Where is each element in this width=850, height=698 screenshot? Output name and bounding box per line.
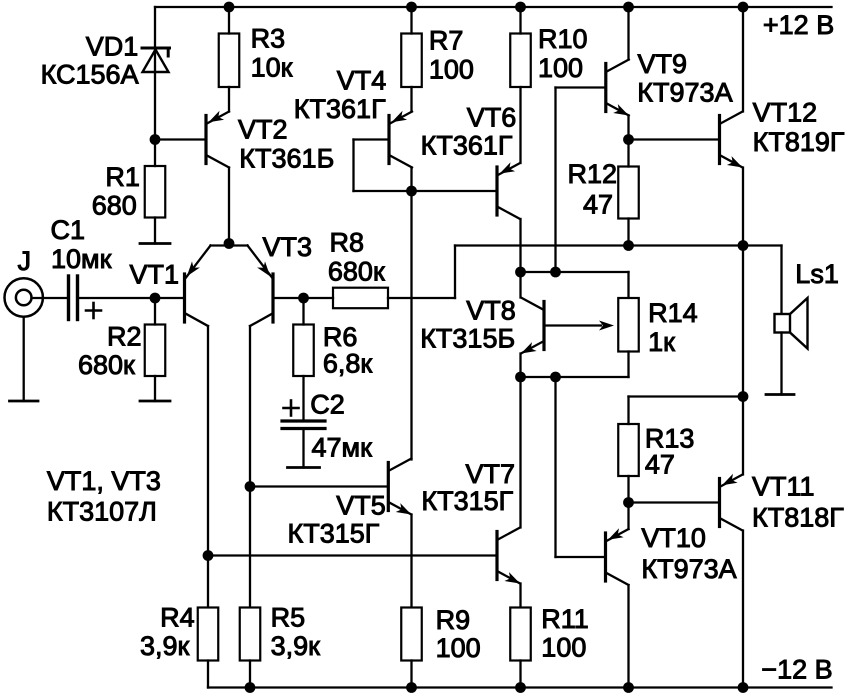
svg-text:КТ315Г: КТ315Г xyxy=(421,486,513,516)
label R10 xyxy=(538,24,588,54)
svg-text:КТ315Б: КТ315Б xyxy=(420,324,515,354)
label VT7 xyxy=(466,459,516,489)
svg-text:VT5: VT5 xyxy=(336,491,386,521)
label R6 value 6.8k xyxy=(323,349,373,379)
wire R8 right lead xyxy=(388,297,455,299)
label C2 xyxy=(310,390,345,420)
label R5 value 3.9k xyxy=(271,631,321,661)
wire VT12 emitter down xyxy=(742,168,744,246)
svg-text:R1: R1 xyxy=(105,162,140,192)
svg-text:R7: R7 xyxy=(429,26,464,56)
ground of J xyxy=(10,400,39,403)
wire VT10 base down xyxy=(554,377,556,557)
wire VT4 node to VT6 base xyxy=(412,190,498,192)
wire R9 bottom lead xyxy=(410,661,412,688)
label VT5 type KT315G xyxy=(288,519,380,549)
node bottom rail junction at VT11 collector xyxy=(738,682,749,693)
label VT10 type KT973A xyxy=(641,554,736,584)
svg-text:VD1: VD1 xyxy=(86,32,139,62)
svg-text:VT4: VT4 xyxy=(337,66,387,96)
label R8 xyxy=(330,228,365,258)
wire J to C1 xyxy=(32,297,69,299)
svg-text:VT1, VT3: VT1, VT3 xyxy=(47,466,161,496)
transistor VT5 xyxy=(388,459,411,515)
svg-text:680к: 680к xyxy=(328,257,385,287)
node VT9-emitter/R12/VT12-base junction xyxy=(623,134,634,145)
label R9 xyxy=(436,605,471,635)
label R9 value 100 xyxy=(436,633,481,663)
label C2 value 47mk xyxy=(312,433,373,463)
transistor VT2 xyxy=(206,111,229,168)
wire feedback to output xyxy=(455,244,743,246)
label VT5 xyxy=(336,491,386,521)
node top rail junction at R10 xyxy=(515,2,526,13)
label VD1 xyxy=(86,32,139,62)
wire R14 bottom corner xyxy=(627,352,629,378)
label VT6 type KT361G xyxy=(421,131,513,161)
label -12 V xyxy=(761,655,832,685)
resistor R11 xyxy=(510,608,531,661)
wire VT2 collector down xyxy=(228,168,230,244)
node bottom rail junction at R5 xyxy=(245,682,256,693)
transistor VT10 xyxy=(606,528,629,585)
wire VT5 emitter down to R9 xyxy=(410,515,412,608)
wire VT12 collector up xyxy=(742,7,744,112)
node VT12-emitter/output junction xyxy=(738,240,749,251)
svg-text:1к: 1к xyxy=(648,327,675,357)
node input junction C1/R2/VT1 xyxy=(150,293,161,304)
label R7 xyxy=(429,26,464,56)
svg-text:VT2: VT2 xyxy=(238,115,288,145)
speaker Ls1 box xyxy=(775,314,791,333)
speaker Ls1 horn xyxy=(790,298,808,349)
transistor VT6 xyxy=(497,162,520,219)
svg-text:КТ3107Л: КТ3107Л xyxy=(47,497,157,527)
wire node to VT11 base xyxy=(629,501,720,503)
resistor R2 xyxy=(145,325,166,377)
wire VT4 node down to VT5 collector xyxy=(410,191,412,460)
wire R3 to VT2 emitter xyxy=(228,87,230,112)
wire VT9 collector up xyxy=(627,7,629,60)
svg-text:C2: C2 xyxy=(310,390,345,420)
wire R6 to C2 xyxy=(302,376,304,421)
transistor VT1 collector slant xyxy=(186,314,209,327)
resistor R14 potentiometer xyxy=(618,298,639,352)
svg-text:R5: R5 xyxy=(271,603,306,633)
label R6 xyxy=(323,322,358,352)
transistor VT9 xyxy=(606,60,629,116)
resistor R8 xyxy=(333,288,388,309)
svg-text:680: 680 xyxy=(92,191,137,221)
svg-text:КТ361Б: КТ361Б xyxy=(239,144,334,174)
svg-text:100: 100 xyxy=(538,53,583,83)
node VT9-base/bias-top junction xyxy=(550,267,561,278)
wire VT10 emitter up xyxy=(627,503,629,530)
svg-text:КТ973А: КТ973А xyxy=(637,78,732,108)
svg-text:3,9к: 3,9к xyxy=(140,631,190,661)
wire VT3 collector down to R5 xyxy=(249,326,251,608)
node top rail junction at R3 xyxy=(224,2,235,13)
svg-text:VT3: VT3 xyxy=(263,232,313,262)
label R7 value 100 xyxy=(429,55,474,85)
wire emitter stub left xyxy=(211,244,230,246)
svg-text:J: J xyxy=(18,246,32,276)
label R2 xyxy=(107,322,142,352)
node VT3-collector / VT5 base junction xyxy=(245,481,256,492)
diode VD1 zener cathode bar xyxy=(142,48,170,56)
wire VT8 collector up xyxy=(519,272,521,298)
connector J inner circle xyxy=(16,290,32,306)
node VT4 collector/base/VT6 base junction xyxy=(406,186,417,197)
wire VT4 base loop left xyxy=(354,138,390,140)
node VD1/R1/VT2-base junction xyxy=(150,134,161,145)
transistor VT3 base bar xyxy=(271,274,274,322)
label R13 xyxy=(645,424,695,454)
label VD1 type KS156A xyxy=(41,60,139,90)
label R3 value 10k xyxy=(251,53,293,83)
label VT8 type KT315B xyxy=(420,324,515,354)
wire VT2 base lead xyxy=(155,138,206,140)
wire speaker bottom xyxy=(780,333,782,395)
wire R1 top lead xyxy=(154,140,156,167)
label VT8 xyxy=(466,296,516,326)
wire R7 top lead xyxy=(410,7,412,34)
transistor VT11 xyxy=(720,474,743,531)
node top rail junction at VT12 collector xyxy=(738,2,749,13)
label VT2 xyxy=(238,115,288,145)
label Ls1 xyxy=(795,259,839,289)
label VT1 xyxy=(130,260,180,290)
svg-text:10мк: 10мк xyxy=(51,244,112,274)
wire C2 bottom lead xyxy=(302,429,304,468)
wire VT8 base to R14 wiper xyxy=(546,324,601,326)
node top rail junction at R7 xyxy=(406,2,417,13)
wire node to VT12 base xyxy=(629,138,720,140)
resistor R4 xyxy=(198,608,219,661)
svg-text:C1: C1 xyxy=(51,215,86,245)
svg-text:Ls1: Ls1 xyxy=(795,259,839,289)
wire J shield down xyxy=(23,317,25,401)
wire VT4 collector down xyxy=(410,168,412,192)
svg-text:6,8к: 6,8к xyxy=(323,349,373,379)
label J xyxy=(18,246,32,276)
label VT6 xyxy=(467,103,517,133)
wire VT8 emitter down xyxy=(519,354,521,378)
wire R10 top lead xyxy=(519,7,521,34)
label VT9 type KT973A xyxy=(637,78,732,108)
svg-text:R10: R10 xyxy=(538,24,588,54)
resistor R13 xyxy=(618,424,639,476)
svg-text:10к: 10к xyxy=(251,53,293,83)
wire +12V top rail xyxy=(155,6,832,8)
wire R12 top lead xyxy=(627,140,629,167)
label VT7 type KT315G xyxy=(421,486,513,516)
wire output to speaker corner xyxy=(743,244,782,246)
label VT3 xyxy=(263,232,313,262)
wire R8 up corner xyxy=(454,246,456,299)
resistor R5 xyxy=(240,608,261,661)
resistor R12 xyxy=(618,167,639,219)
node VT1-collector / long wire junction xyxy=(203,550,214,561)
label R5 xyxy=(271,603,306,633)
transistor VT1 base bar xyxy=(183,274,186,322)
svg-text:R6: R6 xyxy=(323,322,358,352)
wire VT1 emitter slant xyxy=(186,246,211,279)
svg-text:100: 100 xyxy=(429,55,474,85)
node R13-wire/output junction xyxy=(738,391,749,402)
transistor VT12 xyxy=(720,112,743,168)
wire VT5 base left xyxy=(250,485,388,487)
polarity + of C2 xyxy=(284,401,299,416)
wire VT6 collector down xyxy=(519,219,521,272)
wire R4 bottom lead xyxy=(207,661,209,688)
wire VT7 collector up xyxy=(519,377,521,528)
wire VT11 collector down xyxy=(742,531,744,688)
label R4 value 3.9k xyxy=(140,631,190,661)
diode VD1 zener triangle xyxy=(143,50,169,73)
label R11 xyxy=(541,604,589,634)
wire VT7 emitter down to R11 xyxy=(519,584,521,608)
svg-text:VT11: VT11 xyxy=(752,472,815,502)
label VT1 VT3 note xyxy=(47,466,161,496)
wire R7 to VT4 emitter xyxy=(410,87,412,112)
resistor R10 xyxy=(510,34,531,88)
label R1 value 680 xyxy=(92,191,137,221)
svg-text:3,9к: 3,9к xyxy=(271,631,321,661)
wire bias bottom xyxy=(521,376,629,378)
node bottom rail junction at VT10 collector xyxy=(623,682,634,693)
label KT3107L note xyxy=(47,497,157,527)
polarity + of C1 xyxy=(86,303,101,318)
svg-text:VT6: VT6 xyxy=(467,103,517,133)
svg-text:КТ819Г: КТ819Г xyxy=(753,127,845,157)
transistor VT8 xyxy=(521,298,544,354)
svg-text:КТ315Г: КТ315Г xyxy=(288,519,380,549)
label VT12 xyxy=(753,98,818,128)
label C1 xyxy=(51,215,86,245)
transistor VT1 emitter arrow xyxy=(187,261,200,276)
wire VT3 emitter slant xyxy=(248,246,273,279)
svg-text:VT8: VT8 xyxy=(466,296,516,326)
wire R12 bottom lead xyxy=(627,219,629,246)
wire R6 top lead xyxy=(302,298,304,325)
wire VT4 base loop bottom xyxy=(354,190,412,192)
svg-text:R2: R2 xyxy=(107,322,142,352)
wire R2 bottom lead xyxy=(154,376,156,401)
label R11 value 100 xyxy=(541,633,586,663)
wire VD1 anode to node xyxy=(154,49,156,140)
wire bias top xyxy=(521,271,629,273)
node bottom rail junction at R9 xyxy=(406,682,417,693)
node VT2 collector / VT1 VT3 emitters xyxy=(224,238,235,249)
resistor R6 xyxy=(293,325,314,377)
resistor R3 xyxy=(219,34,240,88)
svg-text:VT7: VT7 xyxy=(466,459,516,489)
label R14 xyxy=(648,298,698,328)
connector J outer circle xyxy=(5,278,43,316)
label VT2 type KT361B xyxy=(239,144,334,174)
label R10 value 100 xyxy=(538,53,583,83)
label R13 value 47 xyxy=(645,450,675,480)
svg-text:R9: R9 xyxy=(436,605,471,635)
svg-text:100: 100 xyxy=(436,633,481,663)
svg-text:−12 В: −12 В xyxy=(761,655,832,685)
wire VT4 base loop down xyxy=(352,140,354,192)
wire VT10 base right xyxy=(556,556,606,558)
label VT4 type KT361G xyxy=(294,94,386,124)
svg-text:47: 47 xyxy=(583,190,613,220)
svg-text:R14: R14 xyxy=(648,298,698,328)
ground of speaker xyxy=(766,393,794,396)
wire top rail corner down to VD1 xyxy=(154,7,156,48)
svg-text:VT1: VT1 xyxy=(130,260,180,290)
label VT10 xyxy=(641,523,706,553)
node bottom rail junction at R11 xyxy=(515,682,526,693)
svg-text:КТ973А: КТ973А xyxy=(641,554,736,584)
wire R10 to VT6 emitter xyxy=(519,87,521,163)
node VT8-emitter/bias-bottom junction xyxy=(515,372,526,383)
transistor VT3 collector slant xyxy=(250,314,273,327)
node VT6-collector/VT8-collector/R14-top junction xyxy=(515,267,526,278)
wire speaker down xyxy=(780,246,782,315)
label VT4 xyxy=(337,66,387,96)
wire VT1-collector node to VT7 base xyxy=(208,554,497,556)
transistor VT4 xyxy=(389,111,412,168)
wire VT9 base down xyxy=(554,88,556,273)
ground of R1 xyxy=(140,242,170,245)
label VT11 xyxy=(752,472,815,502)
wire VT9 base left xyxy=(556,86,606,88)
wire R3 top lead xyxy=(228,7,230,34)
resistor R1 xyxy=(145,166,166,218)
svg-text:R8: R8 xyxy=(330,228,365,258)
svg-text:КТ818Г: КТ818Г xyxy=(752,503,844,533)
wire VT11 emitter up xyxy=(742,246,744,475)
ground of C2 xyxy=(288,466,320,469)
svg-text:VT9: VT9 xyxy=(638,49,688,79)
label C1 value 10mk xyxy=(51,244,112,274)
resistor R7 xyxy=(401,34,422,88)
wire VT10 collector down xyxy=(627,585,629,688)
label R8 value 680k xyxy=(328,257,385,287)
svg-text:R3: R3 xyxy=(251,24,286,54)
svg-text:КС156А: КС156А xyxy=(41,60,139,90)
wire emitter stub right xyxy=(229,244,248,246)
wire R13 top lead xyxy=(627,397,629,425)
wire R8 left lead xyxy=(304,297,334,299)
transistor VT3 emitter arrow xyxy=(257,261,270,276)
wire bias top corner down xyxy=(627,272,629,298)
capacitor C1 xyxy=(69,276,78,320)
svg-text:R11: R11 xyxy=(541,604,589,634)
wire VT3 base lead xyxy=(273,297,304,299)
label R2 value 680k xyxy=(78,350,135,380)
label +12 V xyxy=(763,10,834,40)
wire R13 bottom lead xyxy=(627,476,629,503)
svg-text:VT12: VT12 xyxy=(753,98,818,128)
label R12 value 47 xyxy=(583,190,613,220)
wire VT1 collector down to R4 xyxy=(207,326,209,608)
node bias-bottom/VT10-base junction xyxy=(550,372,561,383)
svg-text:47: 47 xyxy=(645,450,675,480)
wire R13 top to output xyxy=(629,395,744,397)
svg-text:VT10: VT10 xyxy=(641,523,706,553)
wire C1 to VT1 base xyxy=(78,297,185,299)
ground of R2 xyxy=(140,400,170,403)
node R12-bottom/output-wire junction xyxy=(623,240,634,251)
svg-text:КТ361Г: КТ361Г xyxy=(421,131,513,161)
wire R11 bottom lead xyxy=(519,661,521,688)
resistor R9 xyxy=(401,608,422,661)
arrow R14 wiper xyxy=(599,321,614,331)
svg-text:R4: R4 xyxy=(160,603,195,633)
wire VT9 emitter down xyxy=(627,116,629,140)
wire R2 top lead xyxy=(154,298,156,325)
transistor VT7 xyxy=(497,528,520,584)
svg-text:47мк: 47мк xyxy=(312,433,373,463)
svg-text:КТ361Г: КТ361Г xyxy=(294,94,386,124)
svg-text:680к: 680к xyxy=(78,350,135,380)
label R12 xyxy=(568,159,618,189)
label R14 value 1k xyxy=(648,327,675,357)
node top rail junction at VT9 collector xyxy=(623,2,634,13)
label R3 xyxy=(251,24,286,54)
node VT3-base/R6/R8 junction xyxy=(298,293,309,304)
label R4 xyxy=(160,603,195,633)
wire -12V bottom rail xyxy=(208,686,832,688)
svg-text:100: 100 xyxy=(541,633,586,663)
wire R1 bottom lead xyxy=(154,218,156,244)
svg-text:+12 В: +12 В xyxy=(763,10,834,40)
node R13/VT10-emitter/VT11-base junction xyxy=(623,497,634,508)
svg-text:R12: R12 xyxy=(568,159,618,189)
wire R5 bottom lead xyxy=(249,661,251,688)
label VT12 type KT819G xyxy=(753,127,845,157)
label VT11 type KT818G xyxy=(752,503,844,533)
capacitor C2 xyxy=(282,421,325,429)
label R1 xyxy=(105,162,140,192)
label VT9 xyxy=(638,49,688,79)
